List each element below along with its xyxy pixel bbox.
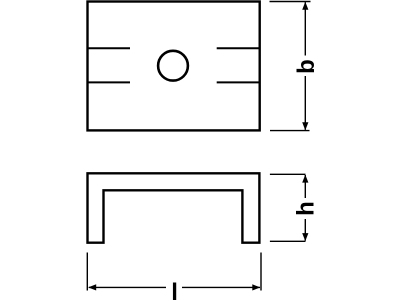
svg-text:h: h xyxy=(293,201,320,216)
svg-text:l: l xyxy=(171,279,178,300)
svg-text:b: b xyxy=(293,59,320,74)
